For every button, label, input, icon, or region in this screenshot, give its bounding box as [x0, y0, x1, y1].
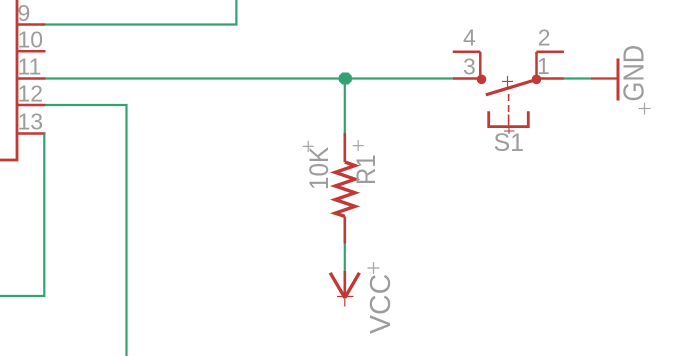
svg-text:10: 10	[18, 27, 44, 53]
svg-text:12: 12	[18, 80, 44, 106]
svg-text:11: 11	[18, 53, 42, 79]
svg-text:VCC: VCC	[365, 274, 397, 334]
svg-text:9: 9	[18, 0, 31, 26]
svg-text:10K: 10K	[305, 147, 334, 190]
svg-text:3: 3	[463, 54, 476, 80]
svg-text:R1: R1	[352, 154, 382, 185]
svg-text:GND: GND	[617, 45, 650, 102]
svg-text:S1: S1	[494, 129, 525, 157]
svg-text:13: 13	[18, 109, 44, 135]
svg-text:1: 1	[537, 53, 550, 79]
svg-text:4: 4	[463, 24, 476, 50]
svg-text:2: 2	[538, 25, 551, 51]
